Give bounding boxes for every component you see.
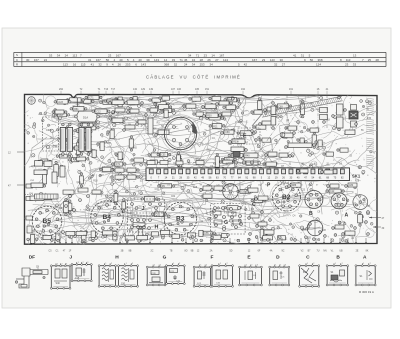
svg-text:R36: R36 xyxy=(302,230,307,232)
svg-text:2E: 2E xyxy=(356,251,359,253)
svg-text:115: 115 xyxy=(81,63,86,67)
svg-text:8K: 8K xyxy=(366,251,369,253)
H detail boxes xyxy=(99,266,116,287)
svg-text:3B: 3B xyxy=(121,251,124,253)
svg-text:124: 124 xyxy=(316,63,321,67)
tube socket B5 xyxy=(32,206,62,236)
J detail boxes xyxy=(51,266,70,289)
svg-text:27: 27 xyxy=(282,63,286,67)
svg-text:G: G xyxy=(163,254,167,260)
H dashed box xyxy=(128,216,165,232)
svg-text:C55: C55 xyxy=(241,191,246,193)
svg-text:J: J xyxy=(142,206,145,212)
svg-text:R: R xyxy=(16,63,18,67)
svg-text:C69: C69 xyxy=(278,106,283,108)
svg-text:CÂBLAGE VU CÔTÉ IMPRIMÉ: CÂBLAGE VU CÔTÉ IMPRIMÉ xyxy=(146,74,241,79)
svg-text:R55: R55 xyxy=(307,238,312,240)
svg-text:T17: T17 xyxy=(111,88,116,91)
extra top band parts xyxy=(118,97,122,107)
svg-text:8O: 8O xyxy=(184,251,187,253)
svg-text:167: 167 xyxy=(116,53,121,57)
svg-text:45: 45 xyxy=(184,58,188,62)
svg-text:39: 39 xyxy=(146,58,150,62)
svg-text:167: 167 xyxy=(34,58,39,62)
svg-text:53: 53 xyxy=(49,53,53,57)
svg-text:D: D xyxy=(276,254,280,260)
svg-text:2: 2 xyxy=(111,263,112,265)
svg-text:143: 143 xyxy=(270,58,275,62)
svg-text:1: 1 xyxy=(78,262,79,264)
dashed box C48 xyxy=(43,117,59,151)
svg-text:R18: R18 xyxy=(93,180,98,182)
svg-text:2: 2 xyxy=(227,263,228,265)
PCB board outline xyxy=(25,94,378,244)
fiducial top-left xyxy=(28,97,36,105)
top-left small parts xyxy=(57,100,68,105)
diagonal dash-dot leads xyxy=(252,108,290,162)
G detail boxes xyxy=(147,267,165,285)
electrolytic caps row xyxy=(60,127,65,151)
svg-text:R18: R18 xyxy=(238,122,243,124)
svg-text:167: 167 xyxy=(96,58,101,62)
svg-text:32: 32 xyxy=(98,63,102,67)
svg-text:9C: 9C xyxy=(282,251,285,253)
svg-text:41: 41 xyxy=(91,63,95,67)
IF can double circle xyxy=(164,117,196,149)
svg-text:132: 132 xyxy=(133,88,138,91)
left lower small parts xyxy=(35,161,43,167)
svg-text:2: 2 xyxy=(251,265,252,267)
small parts above strip xyxy=(147,161,155,165)
right edge hatch xyxy=(366,98,374,115)
svg-text:30: 30 xyxy=(280,58,284,62)
svg-text:B: B xyxy=(309,211,313,217)
svg-text:106: 106 xyxy=(177,88,182,91)
svg-text:124: 124 xyxy=(223,58,228,62)
svg-text:368: 368 xyxy=(164,63,169,67)
scattered small components xyxy=(114,194,118,202)
svg-text:D: D xyxy=(231,97,235,103)
svg-text:23: 23 xyxy=(108,53,112,57)
svg-text:C31: C31 xyxy=(77,182,82,184)
svg-text:B5: B5 xyxy=(43,218,52,225)
svg-text:R28: R28 xyxy=(193,187,198,189)
svg-text:2: 2 xyxy=(206,265,207,267)
svg-text:1: 1 xyxy=(173,263,174,265)
tube socket B3 xyxy=(164,202,196,234)
svg-text:107: 107 xyxy=(171,88,176,91)
bottom dense band xyxy=(31,235,35,244)
svg-text:1: 1 xyxy=(105,263,106,265)
svg-text:C71: C71 xyxy=(89,97,94,100)
svg-text:SK1: SK1 xyxy=(352,174,361,179)
F detail boxes xyxy=(194,267,211,286)
svg-text:161: 161 xyxy=(289,88,294,91)
svg-text:129: 129 xyxy=(141,88,146,91)
svg-text:34: 34 xyxy=(210,63,214,67)
notch lead arrow xyxy=(76,98,78,111)
dashed leader line xyxy=(25,194,34,196)
hatched rising band xyxy=(262,97,343,118)
svg-text:162: 162 xyxy=(241,88,246,91)
B detail box xyxy=(327,266,348,285)
svg-text:R18: R18 xyxy=(326,120,331,122)
svg-text:24: 24 xyxy=(184,63,188,67)
svg-text:C: C xyxy=(16,58,18,62)
svg-text:R30: R30 xyxy=(207,114,212,117)
svg-text:56: 56 xyxy=(106,58,110,62)
svg-text:3: 3 xyxy=(285,265,286,267)
svg-text:R18: R18 xyxy=(99,175,104,177)
svg-text:4A: 4A xyxy=(270,250,273,253)
svg-text:B: B xyxy=(336,254,340,260)
svg-text:1: 1 xyxy=(154,265,155,267)
svg-text:C71: C71 xyxy=(116,164,121,166)
svg-text:UB: UB xyxy=(339,251,343,253)
svg-text:14: 14 xyxy=(211,53,215,57)
section dash-dot lines xyxy=(286,95,288,128)
svg-text:31: 31 xyxy=(301,53,305,57)
G dashed box xyxy=(211,204,246,235)
tube socket B2 xyxy=(273,183,301,211)
svg-text:28: 28 xyxy=(200,58,204,62)
J dashed box xyxy=(128,199,165,213)
dark X box xyxy=(349,111,358,119)
svg-text:7U: 7U xyxy=(317,251,320,253)
svg-text:32: 32 xyxy=(274,63,278,67)
parts left of strip xyxy=(115,168,124,172)
svg-text:368: 368 xyxy=(318,58,323,62)
svg-text:25: 25 xyxy=(368,58,372,62)
svg-text:S30: S30 xyxy=(121,284,126,286)
svg-text:1: 1 xyxy=(307,263,308,265)
dark wedge on can xyxy=(191,124,196,134)
svg-text:A: A xyxy=(345,213,349,219)
svg-text:167: 167 xyxy=(252,58,257,62)
svg-text:C69: C69 xyxy=(225,131,230,134)
svg-text:13: 13 xyxy=(353,53,357,57)
svg-text:3: 3 xyxy=(87,262,88,264)
svg-text:71: 71 xyxy=(196,53,200,57)
svg-text:C95: C95 xyxy=(53,147,58,149)
svg-text:24: 24 xyxy=(44,58,48,62)
svg-text:R 306 19 A: R 306 19 A xyxy=(359,290,374,294)
E dashed box xyxy=(238,128,260,144)
svg-text:2: 2 xyxy=(179,263,180,265)
leads through bottom edge xyxy=(54,238,56,248)
svg-text:2: 2 xyxy=(61,263,62,265)
svg-text:C48: C48 xyxy=(46,128,51,132)
svg-text:C62: C62 xyxy=(171,196,176,198)
svg-text:41: 41 xyxy=(293,53,297,57)
scattered solder pads xyxy=(188,169,190,171)
svg-text:R61: R61 xyxy=(74,108,79,111)
svg-text:2: 2 xyxy=(132,263,133,265)
svg-text:31: 31 xyxy=(88,58,92,62)
svg-text:33: 33 xyxy=(172,58,176,62)
svg-text:5D: 5D xyxy=(230,251,233,253)
svg-text:C: C xyxy=(252,202,256,208)
svg-text:J: J xyxy=(69,254,72,260)
svg-text:C15: C15 xyxy=(75,278,80,280)
svg-text:23: 23 xyxy=(262,58,266,62)
svg-text:R21: R21 xyxy=(213,126,218,128)
svg-text:2: 2 xyxy=(280,265,281,267)
trimmer circle xyxy=(307,220,323,236)
svg-text:42: 42 xyxy=(244,63,248,67)
svg-text:1: 1 xyxy=(200,265,201,267)
svg-text:C80: C80 xyxy=(349,185,354,187)
C detail box xyxy=(300,266,319,287)
svg-text:C23: C23 xyxy=(209,213,214,215)
svg-text:52: 52 xyxy=(174,63,178,67)
svg-text:C31: C31 xyxy=(155,189,160,191)
svg-text:143: 143 xyxy=(141,63,146,67)
svg-text:R88: R88 xyxy=(292,185,297,187)
svg-text:C23: C23 xyxy=(301,190,306,192)
svg-text:8B: 8B xyxy=(129,251,132,253)
svg-text:T16: T16 xyxy=(104,88,109,91)
svg-text:113: 113 xyxy=(63,63,68,67)
svg-text:C62: C62 xyxy=(113,241,118,243)
right lower parts xyxy=(300,169,308,173)
svg-text:253: 253 xyxy=(125,63,130,67)
svg-text:28: 28 xyxy=(376,58,380,62)
svg-text:262: 262 xyxy=(59,88,64,91)
svg-text:1: 1 xyxy=(275,265,276,267)
parts around C xyxy=(203,186,212,190)
DF detail (DIN plug) xyxy=(16,268,48,288)
svg-text:34: 34 xyxy=(192,58,196,62)
connector strip SK1 xyxy=(146,168,350,181)
svg-text:E: E xyxy=(243,134,247,140)
svg-text:9B: 9B xyxy=(191,251,194,253)
svg-text:1: 1 xyxy=(246,265,247,267)
svg-text:7B: 7B xyxy=(170,251,173,253)
svg-text:34: 34 xyxy=(192,63,196,67)
svg-text:C12: C12 xyxy=(96,111,101,114)
svg-text:1: 1 xyxy=(126,263,127,265)
svg-text:R33: R33 xyxy=(233,140,238,143)
E detail box xyxy=(240,267,262,285)
svg-text:113: 113 xyxy=(72,53,77,57)
svg-text:C55: C55 xyxy=(161,155,166,157)
svg-text:3: 3 xyxy=(66,263,67,265)
svg-text:R40: R40 xyxy=(245,155,250,158)
svg-text:NN: NN xyxy=(323,251,327,253)
svg-text:AU3: AU3 xyxy=(58,101,63,104)
svg-text:113: 113 xyxy=(346,58,351,62)
svg-text:1: 1 xyxy=(363,263,364,265)
svg-text:D1A: D1A xyxy=(83,116,88,120)
svg-text:149: 149 xyxy=(149,88,154,91)
D1A hexagon component xyxy=(76,111,98,122)
svg-text:B3: B3 xyxy=(176,216,185,223)
svg-text:56: 56 xyxy=(310,58,314,62)
svg-text:R28: R28 xyxy=(355,181,360,183)
cluster between sockets xyxy=(65,205,68,208)
svg-text:14: 14 xyxy=(164,58,168,62)
svg-text:R65: R65 xyxy=(107,143,112,145)
svg-text:2: 2 xyxy=(313,263,314,265)
D detail box xyxy=(270,267,289,285)
svg-text:C12: C12 xyxy=(330,191,335,193)
svg-text:B4: B4 xyxy=(103,214,112,221)
parts table xyxy=(14,51,386,53)
right coil circles xyxy=(305,191,323,209)
mid-left component cluster xyxy=(112,100,124,105)
svg-text:2: 2 xyxy=(160,265,161,267)
svg-text:S: S xyxy=(16,53,18,57)
svg-text:S40: S40 xyxy=(56,282,61,285)
svg-text:33: 33 xyxy=(353,63,357,67)
svg-text:2: 2 xyxy=(370,263,371,265)
medium spoke circle xyxy=(223,184,239,200)
svg-text:C95: C95 xyxy=(179,236,184,238)
svg-text:1: 1 xyxy=(57,263,58,265)
A detail box xyxy=(356,266,375,285)
copper traces texture xyxy=(37,129,240,142)
small rect pair xyxy=(320,108,328,113)
svg-text:G: G xyxy=(224,220,228,226)
svg-text:2C: 2C xyxy=(151,251,154,253)
svg-text:167: 167 xyxy=(219,53,224,57)
svg-text:1: 1 xyxy=(335,263,336,265)
svg-text:24: 24 xyxy=(65,53,69,57)
svg-text:3: 3 xyxy=(257,265,258,267)
svg-text:R55: R55 xyxy=(225,99,230,101)
svg-text:A: A xyxy=(363,254,367,260)
top-center cluster xyxy=(205,104,216,109)
svg-text:26: 26 xyxy=(118,63,122,67)
svg-text:71: 71 xyxy=(180,58,184,62)
left edge strip parts xyxy=(26,184,33,188)
svg-text:F: F xyxy=(211,254,214,260)
svg-text:B2: B2 xyxy=(282,194,291,201)
svg-text:143: 143 xyxy=(154,58,159,62)
svg-text:2: 2 xyxy=(83,262,84,264)
striped bar component xyxy=(35,194,59,199)
svg-text:A62: A62 xyxy=(284,137,289,140)
svg-text:253: 253 xyxy=(200,63,205,67)
svg-text:2A: 2A xyxy=(210,250,213,253)
svg-text:DF: DF xyxy=(29,254,35,260)
tube socket B4 xyxy=(91,201,123,233)
svg-text:27: 27 xyxy=(215,58,219,62)
svg-text:26: 26 xyxy=(207,58,211,62)
svg-text:151: 151 xyxy=(205,88,210,91)
svg-text:40: 40 xyxy=(138,58,142,62)
svg-text:23: 23 xyxy=(345,63,349,67)
svg-text:23: 23 xyxy=(204,53,208,57)
svg-text:2: 2 xyxy=(342,263,343,265)
right edge leader labels xyxy=(369,217,381,219)
svg-text:C: C xyxy=(306,254,310,260)
svg-text:C55: C55 xyxy=(204,233,209,235)
svg-text:R65: R65 xyxy=(133,148,138,150)
svg-text:16: 16 xyxy=(73,63,77,67)
svg-text:30: 30 xyxy=(26,58,30,62)
svg-text:105: 105 xyxy=(195,88,200,91)
svg-text:H: H xyxy=(115,254,119,260)
svg-text:40: 40 xyxy=(119,58,123,62)
svg-text:C12: C12 xyxy=(59,115,64,117)
left edge leader ticks xyxy=(17,151,25,153)
svg-text:1: 1 xyxy=(220,263,221,265)
svg-text:34: 34 xyxy=(57,53,61,57)
svg-text:H: H xyxy=(155,225,159,231)
top-right parts xyxy=(271,106,276,115)
svg-text:34: 34 xyxy=(188,53,192,57)
